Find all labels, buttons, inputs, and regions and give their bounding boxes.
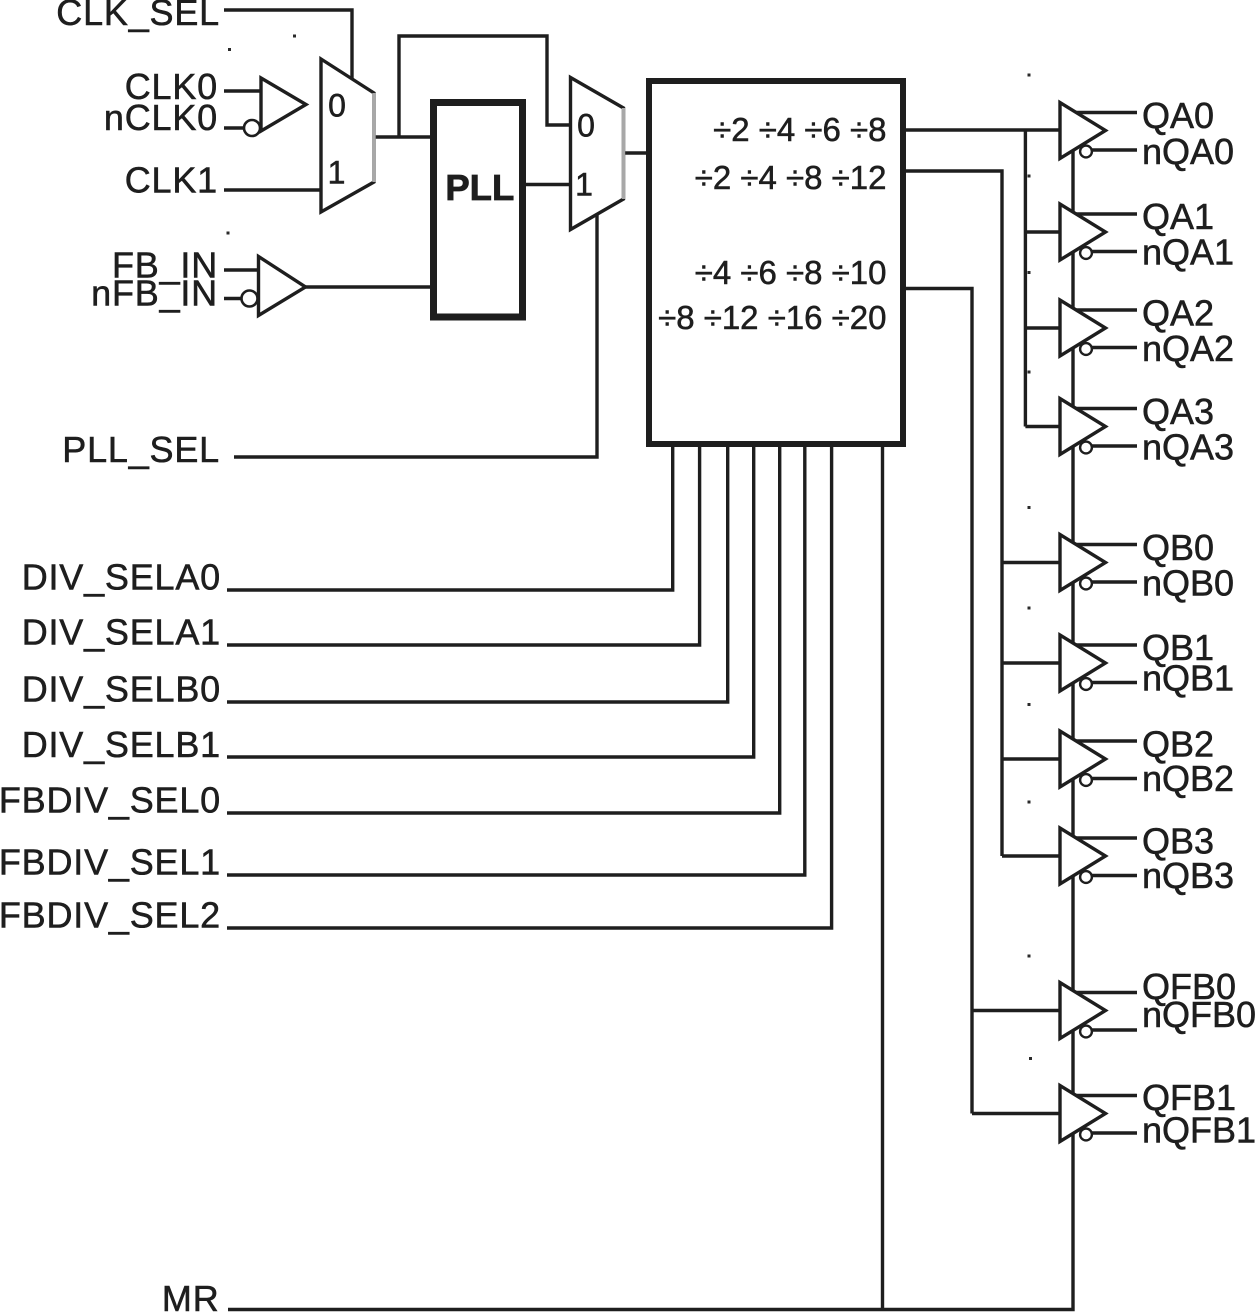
svg-text:÷2 ÷4 ÷6 ÷8: ÷2 ÷4 ÷6 ÷8 [713, 111, 886, 148]
svg-text:PLL: PLL [445, 167, 514, 208]
svg-text:nQB3: nQB3 [1142, 855, 1234, 896]
svg-text:MR: MR [162, 1278, 220, 1316]
svg-text:CLK_SEL: CLK_SEL [56, 0, 220, 33]
svg-text:0: 0 [577, 108, 595, 144]
svg-text:1: 1 [328, 155, 346, 191]
svg-text:0: 0 [328, 88, 346, 124]
svg-text:PLL_SEL: PLL_SEL [62, 429, 220, 470]
svg-text:÷4 ÷6 ÷8 ÷10: ÷4 ÷6 ÷8 ÷10 [695, 254, 887, 291]
svg-text:DIV_SELB1: DIV_SELB1 [22, 724, 221, 765]
svg-text:nQA0: nQA0 [1142, 131, 1234, 172]
svg-text:nCLK0: nCLK0 [104, 97, 218, 138]
svg-text:FBDIV_SEL1: FBDIV_SEL1 [0, 842, 221, 883]
svg-text:nQFB1: nQFB1 [1142, 1110, 1256, 1151]
svg-text:1: 1 [575, 167, 593, 203]
svg-text:nQB2: nQB2 [1142, 758, 1234, 799]
svg-text:nQA1: nQA1 [1142, 232, 1234, 273]
svg-text:÷2 ÷4 ÷8 ÷12: ÷2 ÷4 ÷8 ÷12 [695, 159, 887, 196]
svg-text:DIV_SELB0: DIV_SELB0 [22, 669, 221, 710]
svg-text:FBDIV_SEL2: FBDIV_SEL2 [0, 895, 221, 936]
svg-text:DIV_SELA0: DIV_SELA0 [22, 557, 221, 598]
svg-text:DIV_SELA1: DIV_SELA1 [22, 612, 221, 653]
svg-text:QA0: QA0 [1142, 95, 1214, 136]
svg-text:nQA3: nQA3 [1142, 427, 1234, 468]
svg-text:nQB1: nQB1 [1142, 658, 1234, 699]
svg-text:CLK1: CLK1 [125, 160, 218, 201]
svg-text:FBDIV_SEL0: FBDIV_SEL0 [0, 780, 221, 821]
svg-text:nFB_IN: nFB_IN [91, 273, 218, 314]
svg-text:nQFB0: nQFB0 [1142, 994, 1256, 1035]
svg-text:nQB0: nQB0 [1142, 563, 1234, 604]
svg-text:nQA2: nQA2 [1142, 328, 1234, 369]
svg-text:÷8 ÷12 ÷16 ÷20: ÷8 ÷12 ÷16 ÷20 [658, 299, 886, 336]
